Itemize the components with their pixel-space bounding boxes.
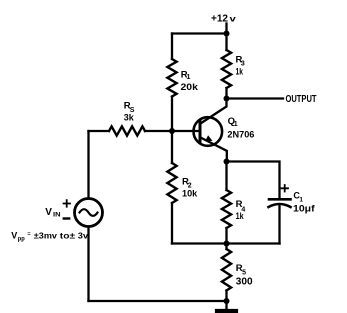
label C1 10uf bbox=[293, 191, 316, 215]
svg-text:pp: pp bbox=[18, 235, 25, 242]
label R5 300 bbox=[236, 263, 253, 288]
svg-text:10k: 10k bbox=[182, 189, 198, 200]
emitter arrow bbox=[205, 135, 212, 141]
node base junction bbox=[169, 128, 175, 134]
wire R1 bottom lead bbox=[171, 97, 173, 132]
transistor Q1 bbox=[194, 117, 223, 146]
resistor R4 bbox=[222, 190, 231, 228]
resistor R3 bbox=[222, 50, 231, 88]
svg-text:20k: 20k bbox=[181, 82, 199, 93]
wire R2 top lead bbox=[171, 131, 173, 163]
source VIN circle bbox=[75, 199, 103, 227]
svg-text:2N706: 2N706 bbox=[227, 129, 254, 140]
svg-text:to±: to± bbox=[60, 230, 76, 240]
wire R3 top lead bbox=[225, 34, 227, 51]
ground bbox=[217, 309, 236, 313]
node emitter junction bbox=[224, 159, 230, 165]
svg-text:V: V bbox=[11, 230, 17, 240]
wire R2 bottom lead bbox=[171, 203, 173, 244]
resistor R2 bbox=[167, 163, 176, 203]
svg-text:OUTPUT: OUTPUT bbox=[286, 94, 317, 105]
wire R3 bottom lead bbox=[225, 88, 227, 99]
wire output bbox=[227, 97, 284, 99]
wire top rail bbox=[172, 32, 227, 34]
wire RS right lead bbox=[145, 130, 172, 132]
wire emitter bbox=[201, 138, 227, 162]
svg-text:IN: IN bbox=[53, 212, 61, 218]
wire R1 top lead bbox=[171, 34, 173, 60]
wire collector bbox=[201, 99, 227, 124]
svg-text:3k: 3k bbox=[124, 113, 135, 124]
wire left branch upper bbox=[87, 131, 89, 198]
capacitor C1 top plate bbox=[269, 198, 291, 201]
label Vpp range bbox=[11, 230, 88, 242]
resistor R5 bbox=[222, 249, 231, 291]
wire R5 top lead bbox=[225, 244, 227, 250]
node R4 bottom junction bbox=[224, 241, 230, 247]
label VIN plus bbox=[64, 200, 71, 207]
svg-text:1k: 1k bbox=[236, 211, 245, 221]
transistor Q1 base bar bbox=[199, 122, 202, 143]
resistor R1 bbox=[167, 59, 176, 97]
label R1 20k bbox=[181, 70, 199, 94]
wire R5 bottom lead bbox=[225, 291, 227, 302]
node output junction bbox=[224, 96, 230, 102]
wire R4 top lead bbox=[225, 162, 227, 191]
label R4 1k bbox=[236, 199, 246, 221]
svg-text:3v: 3v bbox=[78, 230, 89, 240]
svg-text:±3mv: ±3mv bbox=[34, 230, 57, 240]
wire left branch lower bbox=[87, 227, 89, 301]
wire bottom rail B bbox=[89, 300, 227, 302]
node ground junction bbox=[224, 298, 230, 304]
svg-text:300: 300 bbox=[236, 276, 253, 288]
svg-text:V: V bbox=[45, 207, 52, 218]
svg-text:10μf: 10μf bbox=[293, 203, 316, 214]
svg-text:1: 1 bbox=[187, 74, 191, 81]
svg-text:1k: 1k bbox=[236, 67, 244, 77]
wire ground stub bbox=[225, 301, 227, 309]
label Q1 2N706 bbox=[227, 116, 254, 141]
label VIN bbox=[45, 207, 60, 218]
label RS 3k bbox=[124, 101, 135, 124]
wire C1 bottom lead bbox=[278, 206, 280, 244]
svg-text:1: 1 bbox=[234, 121, 238, 128]
wire emitter rail to C1 bbox=[227, 162, 280, 199]
capacitor C1 bottom plate bbox=[269, 204, 291, 207]
label R2 10k bbox=[182, 177, 198, 200]
wire bottom rail A bbox=[172, 242, 280, 244]
wire +12v stub bbox=[225, 24, 227, 34]
source VIN sine bbox=[80, 209, 98, 216]
svg-text:v: v bbox=[230, 15, 237, 24]
svg-text:=: = bbox=[27, 231, 30, 237]
wire R4 bottom lead bbox=[225, 228, 227, 244]
label VIN minus bbox=[64, 217, 69, 219]
label C1 plus bbox=[282, 185, 289, 192]
label R3 1k bbox=[236, 54, 245, 76]
node top junction bbox=[224, 31, 230, 37]
wire RS left lead bbox=[89, 130, 110, 132]
wire base bbox=[172, 130, 200, 132]
resistor RS bbox=[109, 126, 145, 135]
